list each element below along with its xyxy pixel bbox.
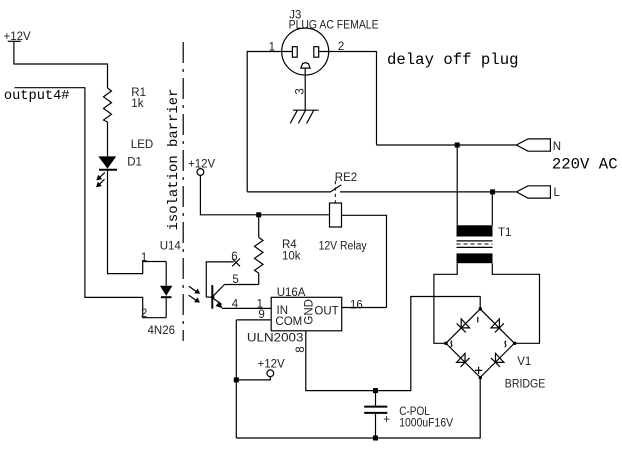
svg-text:1k: 1k: [131, 98, 143, 110]
svg-text:V1: V1: [517, 356, 531, 368]
bridge minus mark: [477, 317, 479, 323]
transformer T1: [457, 225, 512, 263]
svg-text:R1: R1: [131, 87, 146, 99]
svg-text:+12V: +12V: [258, 358, 286, 370]
U16A pin 9 COM wire: [236, 319, 271, 321]
svg-text:16: 16: [350, 300, 363, 312]
resistor R1: [104, 87, 147, 122]
svg-text:9: 9: [258, 309, 264, 321]
power terminal +12V (middle): [188, 158, 216, 175]
svg-text:OUT: OUT: [314, 306, 338, 318]
svg-text:U14: U14: [160, 240, 182, 252]
transformer secondary wires: [434, 263, 457, 343]
svg-text:ULN2003: ULN2003: [247, 332, 304, 344]
svg-text:4: 4: [232, 299, 239, 311]
svg-text:LED: LED: [131, 139, 153, 151]
bridge diode top-left: [457, 319, 470, 333]
junction N/transformer: [455, 143, 460, 148]
svg-text:isolation barrier: isolation barrier: [167, 89, 182, 231]
bridge ac mark left: [451, 341, 453, 347]
svg-text:220V AC: 220V AC: [552, 156, 618, 174]
resistor R4: [255, 215, 301, 285]
svg-text:N: N: [553, 141, 561, 153]
bridge plus mark: [475, 367, 482, 374]
junction +12V rail: [234, 377, 239, 382]
relay RE2 contact: [247, 172, 516, 203]
junction L/transformer: [490, 189, 495, 194]
svg-text:+: +: [383, 414, 390, 426]
svg-text:10k: 10k: [282, 250, 301, 262]
svg-text:1000uF16V: 1000uF16V: [399, 417, 453, 429]
svg-text:delay off plug: delay off plug: [387, 51, 519, 69]
U16A pin 8 GND wire: [306, 297, 480, 391]
wire +12V bottom to rail: [236, 377, 270, 380]
svg-text:BRIDGE: BRIDGE: [505, 379, 546, 391]
vertical +12V/COM rail: [235, 320, 237, 438]
svg-text:D1: D1: [127, 156, 142, 168]
power flag +12V top-left: [4, 31, 32, 43]
svg-text:4N26: 4N26: [148, 325, 176, 337]
relay RE2 coil: [319, 203, 367, 252]
wire D1 to U14 pin1: [108, 171, 167, 274]
svg-text:6: 6: [231, 251, 237, 263]
U14 pin 6 wire with no-connect X: [206, 251, 240, 297]
isolation barrier dash-dot line: [182, 42, 184, 341]
bridge V1 diamond: [446, 309, 515, 378]
wire J3 pin1 to relay contact: [247, 52, 292, 192]
chassis ground: [290, 110, 319, 123]
terminal N: [516, 139, 561, 153]
wire R1 to D1: [107, 122, 109, 156]
U16A pin 16 OUT wire: [342, 307, 387, 309]
svg-text:2: 2: [141, 308, 147, 320]
svg-text:GND: GND: [304, 299, 316, 325]
bottom wire rail to bridge +: [236, 377, 480, 438]
svg-text:L: L: [554, 187, 561, 199]
junction R4 top: [256, 212, 261, 217]
junction cap top: [373, 388, 378, 393]
power terminal +12V (bottom): [258, 358, 286, 376]
bridge ac mark right: [505, 341, 507, 347]
connector J3 plug: [282, 9, 379, 75]
svg-text:PLUG AC FEMALE: PLUG AC FEMALE: [289, 20, 379, 32]
U14 internal LED: [160, 262, 173, 318]
U14 pin 5 collector wire: [225, 274, 259, 286]
svg-text:C-POL: C-POL: [399, 406, 430, 418]
svg-text:output4#: output4#: [4, 89, 70, 104]
LED D1: [96, 139, 153, 187]
svg-text:T1: T1: [498, 227, 511, 239]
svg-text:COM: COM: [275, 316, 302, 328]
wire +12V to R4/relay rail: [200, 175, 329, 214]
wire +12V to R1: [14, 41, 108, 88]
bridge diode top-right: [491, 319, 504, 333]
transformer T1 primary wires: [456, 145, 458, 225]
terminal L: [516, 186, 560, 199]
svg-text:12V Relay: 12V Relay: [319, 240, 367, 252]
svg-text:R4: R4: [282, 239, 297, 251]
U14 phototransistor: [206, 285, 224, 309]
junction cap bottom: [373, 436, 378, 441]
wire coil right to U16A pin16: [342, 215, 387, 307]
U14 light arrows: [189, 286, 201, 302]
wire output4# to U14 pin2: [15, 88, 167, 318]
capacitor C-POL: [364, 391, 453, 438]
bridge diode bottom-right: [491, 353, 504, 367]
wire J3 pin2 to N line: [319, 52, 377, 146]
bridge diode bottom-left: [457, 353, 470, 367]
bridge vertex pin dots: [444, 307, 516, 379]
svg-text:1: 1: [141, 252, 147, 264]
U14 pin 4 emitter wire to U16A: [222, 299, 271, 311]
N wire: [377, 144, 517, 146]
svg-text:U16A: U16A: [277, 287, 306, 299]
svg-text:5: 5: [232, 274, 238, 286]
svg-text:RE2: RE2: [335, 172, 357, 184]
IC U16A box: [247, 287, 342, 344]
wire J3 pin3 to chassis ground: [304, 68, 306, 110]
